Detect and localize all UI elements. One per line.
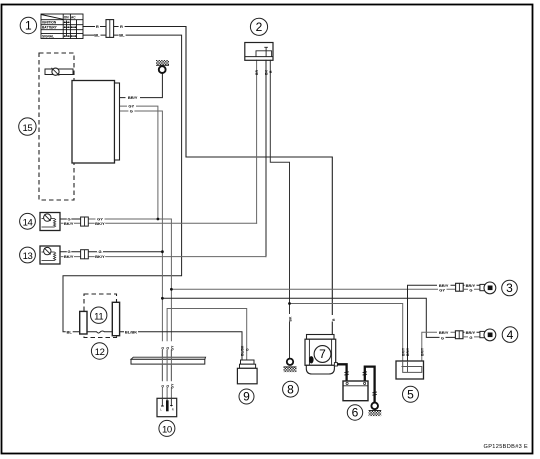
svg-text:IGNITION: IGNITION bbox=[42, 21, 57, 25]
svg-text:2: 2 bbox=[256, 20, 263, 34]
svg-text:G: G bbox=[469, 335, 472, 340]
svg-text:9: 9 bbox=[243, 390, 250, 404]
svg-text:BR: BR bbox=[255, 70, 259, 75]
svg-text:BR/Y: BR/Y bbox=[401, 347, 405, 356]
svg-text:BL: BL bbox=[94, 33, 100, 38]
svg-text:GY: GY bbox=[439, 288, 445, 293]
svg-text:ON: ON bbox=[64, 16, 69, 20]
svg-text:7: 7 bbox=[319, 347, 326, 361]
svg-text:5: 5 bbox=[407, 388, 414, 402]
svg-text:BL: BL bbox=[67, 330, 73, 335]
svg-text:14: 14 bbox=[23, 217, 33, 228]
svg-text:R: R bbox=[120, 24, 123, 29]
svg-text:BL/BK: BL/BK bbox=[125, 330, 137, 335]
svg-text:GY: GY bbox=[170, 383, 174, 389]
svg-text:O: O bbox=[166, 385, 170, 388]
svg-text:BK/Y: BK/Y bbox=[64, 221, 74, 226]
svg-text:BK/Y: BK/Y bbox=[64, 254, 74, 259]
svg-text:SIGNAL: SIGNAL bbox=[42, 34, 54, 38]
svg-text:BK: BK bbox=[264, 70, 268, 75]
svg-text:G: G bbox=[469, 288, 472, 293]
svg-text:4: 4 bbox=[507, 328, 514, 342]
svg-text:1: 1 bbox=[25, 19, 32, 33]
svg-text:GP125BDB#3 E: GP125BDB#3 E bbox=[484, 444, 529, 450]
svg-text:3: 3 bbox=[506, 281, 513, 295]
svg-text:8: 8 bbox=[287, 382, 294, 396]
svg-text:BK/Y: BK/Y bbox=[95, 221, 105, 226]
svg-text:BR/Y: BR/Y bbox=[420, 347, 424, 356]
svg-text:BK: BK bbox=[289, 316, 293, 321]
svg-text:G: G bbox=[161, 347, 165, 350]
svg-text:O: O bbox=[166, 347, 170, 350]
svg-text:G: G bbox=[441, 335, 444, 340]
svg-text:R: R bbox=[172, 408, 174, 412]
svg-text:GY: GY bbox=[170, 345, 174, 351]
svg-text:R: R bbox=[96, 24, 99, 29]
svg-text:6: 6 bbox=[352, 406, 359, 420]
svg-text:G: G bbox=[130, 109, 133, 114]
svg-text:15: 15 bbox=[23, 123, 33, 134]
svg-text:BL/BK: BL/BK bbox=[241, 345, 245, 356]
svg-text:BR/Y: BR/Y bbox=[439, 330, 449, 335]
svg-text:BL: BL bbox=[119, 33, 125, 38]
svg-text:11: 11 bbox=[94, 311, 103, 322]
svg-text:BK/Y: BK/Y bbox=[95, 254, 105, 259]
svg-text:BR/Y: BR/Y bbox=[128, 95, 138, 100]
svg-text:12: 12 bbox=[95, 347, 105, 358]
svg-text:BATTERY: BATTERY bbox=[42, 26, 58, 30]
svg-text:G: G bbox=[246, 348, 250, 351]
svg-text:AC: AC bbox=[71, 16, 76, 20]
svg-text:10: 10 bbox=[162, 425, 172, 436]
svg-text:BR/Y: BR/Y bbox=[406, 347, 410, 356]
svg-text:G: G bbox=[161, 385, 165, 388]
svg-text:13: 13 bbox=[23, 251, 33, 262]
